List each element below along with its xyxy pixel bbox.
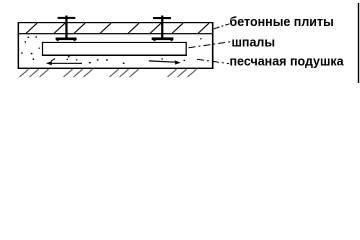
label sleepers	[232, 35, 276, 49]
concrete slab hatching	[26, 23, 209, 33]
right page border line	[358, 3, 359, 83]
sand speckles	[21, 36, 201, 64]
right drainage arrow	[149, 60, 181, 64]
leader line to sleepers label	[189, 42, 231, 48]
rail fastener 2 bottom flange	[152, 37, 174, 41]
ground hatching below box	[20, 69, 197, 77]
rail fastener 2 top flange	[153, 17, 171, 19]
concrete slab layer bottom line	[18, 33, 214, 34]
rail fastener 1 stem	[65, 16, 67, 40]
outer ballast box top edge	[18, 22, 214, 23]
svg-text:песчаная подушка: песчаная подушка	[230, 54, 345, 68]
outer ballast box left edge	[18, 22, 20, 69]
leader line to concrete slabs label	[214, 24, 230, 29]
rail fastener 1 bottom flange	[56, 38, 77, 42]
sleeper rectangle	[42, 42, 187, 56]
leader line to sand cushion label	[197, 59, 229, 63]
svg-text:шпалы: шпалы	[232, 35, 276, 49]
label sand cushion	[230, 54, 345, 68]
svg-text:бетонные плиты: бетонные плиты	[230, 15, 334, 29]
rail fastener 1 top flange	[58, 17, 76, 19]
outer ballast box right edge	[212, 22, 214, 69]
rail fastener 2 stem	[161, 16, 163, 40]
left drainage arrow	[46, 59, 82, 66]
label concrete slabs	[230, 15, 334, 29]
outer ballast box bottom edge	[18, 68, 214, 69]
